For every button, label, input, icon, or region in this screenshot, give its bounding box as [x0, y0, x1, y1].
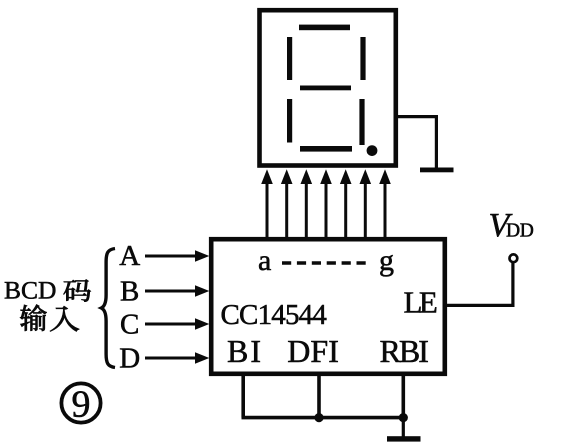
pin label LE — [404, 284, 437, 319]
segment e — [287, 99, 292, 143]
wire segment-b net arrow 2 — [281, 169, 293, 239]
svg-text:DD: DD — [506, 221, 534, 242]
svg-text:BCD: BCD — [4, 276, 56, 305]
wire VDD to LE — [446, 263, 513, 306]
segment g — [300, 86, 351, 91]
pin label a — [258, 244, 271, 277]
wire DFI down — [317, 376, 321, 418]
pin label DFI — [287, 333, 339, 369]
wire input C arrow — [145, 318, 209, 330]
svg-text:a: a — [258, 244, 271, 277]
wire segment-d net arrow 4 — [320, 169, 332, 239]
svg-text:CC14544: CC14544 — [221, 299, 328, 331]
wire input B arrow — [145, 285, 209, 297]
IC label CC14544 — [221, 299, 328, 331]
ground (bottom) — [387, 436, 421, 441]
wire segment-e net arrow 5 — [340, 169, 352, 239]
label BCD码 — [4, 276, 91, 305]
wire input A arrow — [145, 250, 209, 262]
decimal point dp — [367, 145, 378, 156]
input label D — [119, 343, 140, 375]
ground (display) — [420, 168, 454, 173]
brace BCD inputs — [101, 249, 115, 368]
wire to ground — [402, 418, 405, 437]
input label B — [120, 275, 139, 307]
label 输入 — [20, 305, 79, 332]
figure number 9 circle — [61, 383, 100, 425]
input label C — [120, 308, 139, 340]
svg-text:A: A — [119, 240, 140, 272]
svg-text:9: 9 — [72, 383, 91, 425]
VDD label — [489, 207, 534, 244]
junction RBI — [399, 413, 408, 422]
svg-text:B: B — [120, 275, 139, 307]
junction DFI — [314, 413, 323, 422]
wire segment-g net arrow 7 — [379, 169, 391, 239]
segment d — [300, 146, 352, 152]
svg-text:BI: BI — [227, 333, 263, 369]
svg-text:DFI: DFI — [287, 333, 339, 369]
wire display to ground — [398, 117, 437, 168]
pin label g — [379, 244, 394, 277]
wire input D arrow — [145, 352, 209, 364]
svg-text:RBI: RBI — [380, 333, 429, 369]
svg-text:LE: LE — [404, 284, 437, 319]
wire bottom bus — [242, 416, 406, 420]
wire BI down — [241, 376, 245, 418]
segment b — [360, 37, 365, 80]
segment c — [359, 99, 364, 145]
IC U1 CC14544 body — [211, 239, 445, 374]
wire RBI down — [401, 376, 405, 419]
wire segment-a net arrow 1 — [261, 169, 273, 239]
svg-text:C: C — [120, 308, 139, 340]
dashes a..g — [282, 261, 369, 264]
VDD terminal — [510, 254, 518, 262]
wire segment-f net arrow 6 — [360, 169, 372, 239]
pin label RBI — [380, 333, 429, 369]
segment a — [299, 25, 350, 31]
segment f — [287, 37, 292, 80]
input label A — [119, 240, 140, 272]
pin label BI — [227, 333, 263, 369]
svg-text:D: D — [119, 343, 140, 375]
svg-text:g: g — [379, 244, 394, 277]
seven-segment display DS1 outline — [260, 10, 396, 165]
wire segment-c net arrow 3 — [301, 169, 313, 239]
